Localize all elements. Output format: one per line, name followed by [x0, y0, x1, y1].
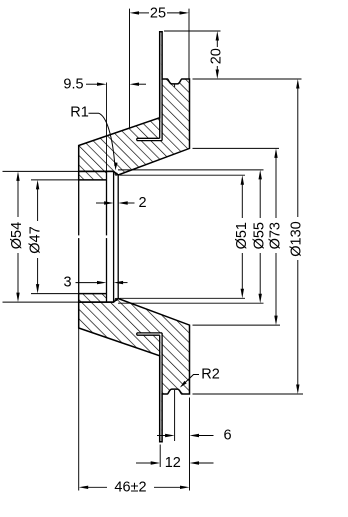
svg-text:25: 25 — [150, 5, 166, 21]
slit fold bottom upper — [137, 140, 162, 142]
hub left face through bore lower — [78, 238, 80, 294]
arrow 2 left — [104, 201, 114, 204]
svg-text:6: 6 — [223, 428, 231, 444]
ext line 20 top — [164, 30, 221, 32]
dim stem 3 right — [122, 282, 128, 284]
arrow 46 right — [180, 486, 190, 489]
dim line O130 lower — [297, 260, 299, 390]
ext line O130 bottom — [193, 393, 304, 395]
bore end wall top — [106, 171, 108, 180]
hub bottom face line — [79, 301, 114, 303]
hatched section: lower hub wall — [79, 294, 107, 303]
arrow 6 right — [190, 434, 200, 437]
arrow O51 bottom — [241, 289, 244, 299]
ext line 12 left — [159, 445, 161, 468]
arrow 25 left — [130, 11, 140, 14]
hatched section: upper hub wall — [79, 171, 107, 180]
hub top face line — [79, 170, 114, 172]
ext line O130 top — [193, 78, 302, 80]
svg-text:12: 12 — [165, 455, 181, 471]
svg-text:Ø73: Ø73 — [267, 222, 283, 249]
dim stem 9.5 left — [86, 83, 98, 85]
bore top line — [79, 179, 107, 181]
dim line O54 upper — [17, 175, 19, 217]
svg-text:R2: R2 — [201, 366, 220, 382]
svg-text:Ø47: Ø47 — [27, 226, 43, 253]
outline lower section — [79, 299, 190, 442]
slit fold top lower — [137, 334, 160, 336]
dim line 25 left seg — [134, 12, 150, 14]
svg-text:2: 2 — [138, 195, 146, 211]
dim stem 12 right — [193, 462, 214, 464]
arrow O54 top — [16, 171, 19, 181]
hatched section: upper cone+rim piece — [79, 32, 190, 175]
rim left face lower — [161, 333, 163, 395]
arrow 12 left — [151, 461, 161, 464]
leader R1 — [89, 113, 115, 166]
slot right wall line — [117, 175, 119, 299]
arrow O54 bottom — [16, 293, 19, 303]
arrow O55 bottom — [259, 294, 262, 304]
dim line O73 upper — [275, 152, 277, 218]
ext 9.5 left over part — [106, 83, 108, 172]
svg-text:20: 20 — [208, 48, 224, 64]
slit fold cap lower — [136, 333, 138, 335]
arrow O55 top — [259, 170, 262, 180]
dim line O47 upper — [37, 184, 39, 221]
arrow 6 left — [165, 434, 175, 437]
dim line O55 lower — [259, 253, 261, 299]
leader R2 — [181, 375, 199, 387]
slit gap upper — [160, 33, 161, 139]
dim line O73 lower — [275, 253, 277, 321]
svg-text:Ø55: Ø55 — [251, 222, 267, 249]
bore end wall edge lower — [106, 238, 108, 294]
ext line O47 bottom — [31, 293, 79, 295]
arrow O130 bottom — [296, 385, 299, 395]
dim stem 2 left — [96, 202, 105, 204]
ext line O54 bottom — [3, 301, 79, 303]
R1 fillet at slot top — [115, 173, 117, 175]
arrow R2 — [180, 381, 187, 388]
slit left line lower — [159, 335, 161, 394]
ext line 46 right / 6 12 right — [189, 398, 191, 491]
hub left face through bore upper — [78, 180, 80, 236]
svg-text:46±2: 46±2 — [114, 479, 146, 495]
bore end wall edge upper — [106, 180, 108, 236]
dim line O130 upper — [297, 84, 299, 218]
arrow 12 right — [190, 461, 200, 464]
dim stem 12 left — [136, 462, 151, 464]
ext line O55 bottom — [118, 302, 264, 304]
svg-text:9.5: 9.5 — [63, 76, 83, 92]
arrow O130 top — [296, 79, 299, 89]
svg-text:Ø54: Ø54 — [9, 222, 25, 249]
slit fold top upper — [137, 137, 160, 139]
arrow 3 right — [114, 281, 124, 284]
ext line O54 top — [3, 170, 79, 172]
dim line O51 lower — [241, 253, 243, 295]
slit fold cap upper — [136, 138, 138, 140]
slot left wall line — [113, 171, 115, 302]
ext line O47 top — [31, 179, 79, 181]
svg-text:3: 3 — [63, 275, 71, 291]
dim line 20 upper seg — [216, 35, 218, 47]
slit gap lower — [160, 335, 161, 441]
outline upper section — [79, 32, 190, 175]
dim line O47 lower — [37, 258, 39, 290]
ext line 25 right above rim — [188, 9, 190, 79]
hub left face top seg — [78, 171, 80, 180]
ext line 6 groove centre — [174, 390, 176, 441]
rim left face upper — [161, 79, 163, 141]
arrow O47 bottom — [36, 284, 39, 294]
arrow O73 bottom — [274, 316, 277, 326]
arrow 20 bottom — [216, 70, 219, 80]
bore end wall bottom — [106, 294, 108, 303]
arrow R1 — [114, 162, 117, 170]
hatched section: lower cone+rim piece — [79, 299, 190, 442]
dim line O51 upper — [241, 179, 243, 218]
R1 fillet mirror at slot bottom — [115, 298, 117, 300]
arrow 25 right — [180, 11, 190, 14]
slit fold bottom lower — [137, 332, 162, 334]
dim stem 3 left — [76, 282, 99, 284]
dim line 25 right seg — [167, 12, 186, 14]
ext line O51 top — [120, 174, 246, 176]
dim line O54 lower — [17, 253, 19, 298]
svg-text:Ø130: Ø130 — [288, 221, 304, 256]
arrow 3 left — [97, 281, 107, 284]
hub left face bottom seg — [78, 294, 80, 303]
arrow O51 top — [241, 175, 244, 185]
ext line O73 top — [193, 147, 280, 149]
arrow 9.5 left — [97, 83, 107, 86]
dim stem 2 right — [122, 202, 135, 204]
dim line 46 right seg — [154, 486, 186, 488]
dim stem 9.5 right — [133, 83, 146, 85]
slit left line upper — [159, 79, 161, 138]
arrow 46 left — [79, 486, 89, 489]
svg-text:Ø51: Ø51 — [234, 222, 250, 249]
arrow 2 right — [118, 201, 128, 204]
ext line 46 left — [78, 306, 80, 491]
arrow O47 top — [36, 180, 39, 190]
centre tick top groove — [174, 84, 176, 87]
dim stem 6 right — [193, 435, 214, 437]
arrow 20 top — [216, 31, 219, 41]
ext line 25 left / 9.5 right — [129, 9, 131, 128]
arrow 9.5 right — [130, 83, 140, 86]
svg-text:R1: R1 — [70, 105, 89, 121]
ext line O73 bottom — [193, 324, 281, 326]
ext line O55 top — [118, 169, 264, 171]
dim stem 6 left — [157, 435, 168, 437]
dim line 20 lower seg — [216, 66, 218, 75]
bore bottom line — [79, 293, 107, 295]
dim line O55 upper — [259, 174, 261, 218]
arrow O73 top — [274, 148, 277, 158]
ext line O51 bottom — [120, 297, 246, 299]
dim line 46 left seg — [83, 486, 107, 488]
